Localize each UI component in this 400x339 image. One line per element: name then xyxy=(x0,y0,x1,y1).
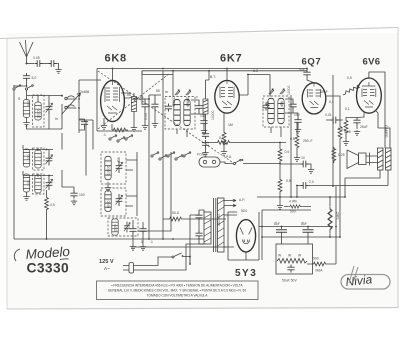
vertical right bus x333 xyxy=(332,75,334,186)
svg-text:50uF 50V: 50uF 50V xyxy=(282,279,297,283)
ground under C6 xyxy=(142,110,148,130)
svg-text:5Y3: 5Y3 xyxy=(235,268,257,279)
mains switch S3 xyxy=(172,253,190,264)
svg-text:10000: 10000 xyxy=(106,165,110,175)
coil L2 in box xyxy=(35,102,41,120)
speaker voice coil xyxy=(366,153,370,166)
svg-text:110.220: 110.220 xyxy=(217,214,221,226)
svg-text:0,1: 0,1 xyxy=(345,107,350,111)
coil L6 in box xyxy=(35,175,41,193)
svg-text:200: 200 xyxy=(27,154,31,160)
svg-text:2000: 2000 xyxy=(114,224,118,232)
svg-text:.1: .1 xyxy=(150,240,153,244)
svg-text:200: 200 xyxy=(27,180,31,186)
svg-text:A~: A~ xyxy=(104,266,110,271)
dashed box antenna coil unit xyxy=(33,95,45,127)
svg-text:1M: 1M xyxy=(228,123,233,127)
capacitor C2 xyxy=(49,60,57,67)
wire grid into 6V6 xyxy=(358,87,360,90)
svg-text:B.T.: B.T. xyxy=(210,75,216,79)
coil L8 in B2 xyxy=(105,191,111,212)
svg-text:456: 456 xyxy=(280,101,284,107)
svg-text:ln: ln xyxy=(55,117,58,121)
heater arrow 2 xyxy=(224,204,236,206)
ground under C10 xyxy=(130,234,136,250)
wire mid link xyxy=(23,133,62,176)
svg-text:0,25: 0,25 xyxy=(338,153,345,157)
ground under 6K8 left xyxy=(101,118,107,129)
ground under C19 xyxy=(354,130,360,135)
tuning gang arrow xyxy=(62,93,81,115)
junction dots bus xyxy=(46,238,164,240)
capacitor C3 antenna series xyxy=(23,63,36,81)
page bottom edge xyxy=(7,308,398,310)
resistor R11 plate load 6Q7 xyxy=(326,96,351,150)
svg-text:6V6: 6V6 xyxy=(363,57,381,68)
svg-text:0,5: 0,5 xyxy=(286,179,291,183)
capacitor C9 100 under T1 xyxy=(199,114,208,126)
wire grid feed 6K8 xyxy=(79,79,101,81)
svg-text:6K7: 6K7 xyxy=(220,53,242,65)
coil L1 antenna xyxy=(23,100,29,118)
wire gang to osc section xyxy=(79,120,93,176)
T1 secondary cap xyxy=(191,100,203,114)
filter capacitor C22 8uF xyxy=(274,222,287,244)
ground under C5 xyxy=(71,200,77,205)
T2 adjust arrow 1 xyxy=(269,89,274,94)
dashed box osc coil unit 1 xyxy=(33,148,45,170)
ground under L1 xyxy=(23,118,29,127)
value label cluster 5 xyxy=(117,96,284,244)
svg-text:50.: 50. xyxy=(140,95,145,99)
svg-text:456: 456 xyxy=(117,157,121,163)
trimmer CT4 in B1 xyxy=(116,161,123,173)
wire 6V6 plate to output transformer xyxy=(369,72,385,148)
ground under R6 xyxy=(221,147,227,155)
filter cap bus xyxy=(262,226,333,228)
trimmer CT6 in B3 xyxy=(124,222,130,233)
Modelo script xyxy=(14,244,71,262)
svg-text:456KC: 456KC xyxy=(172,96,176,107)
horizontal wire y197 xyxy=(257,196,345,198)
ground under R9 xyxy=(277,194,283,209)
FONO jack xyxy=(197,153,220,168)
band switch S1a xyxy=(13,85,27,90)
svg-text:C3330: C3330 xyxy=(27,261,70,276)
IF transformer T2 dashed box xyxy=(263,96,289,127)
svg-text:125 V: 125 V xyxy=(99,259,114,265)
brand logo stadium xyxy=(341,275,390,290)
capacitor C20 line filter upper xyxy=(195,210,204,221)
speaker cone xyxy=(347,150,366,169)
ground under C9 xyxy=(201,126,207,134)
mains plug xyxy=(123,263,134,274)
resistor R12 grid 6V6 0.5 xyxy=(343,76,359,95)
brand logo script xyxy=(345,266,373,289)
bottom ground bus xyxy=(14,238,197,240)
wire T2 bottom drops xyxy=(271,127,281,137)
wire phono line to volume xyxy=(243,163,280,165)
T2 adjust arrow 2 xyxy=(280,89,285,94)
svg-text:CAMPO: CAMPO xyxy=(384,125,388,138)
svg-text:.5uF: .5uF xyxy=(298,68,305,72)
svg-text:0,1: 0,1 xyxy=(219,136,224,140)
capacitor C15 10 xyxy=(280,156,311,168)
tube V1 internals xyxy=(105,81,120,113)
T2 primary coil xyxy=(268,98,274,123)
T1 primary coil xyxy=(174,99,180,125)
switch bank right of osc coils xyxy=(151,152,191,160)
capacitor C10 padder xyxy=(129,220,136,234)
ground B1 xyxy=(105,182,111,191)
vertical B+ wire x291 xyxy=(290,95,292,197)
wire transformer field return xyxy=(345,170,380,197)
capacitor C21 line filter lower xyxy=(195,221,202,239)
horizontal wire y237 xyxy=(262,236,340,238)
coil L5 oscillator xyxy=(23,174,29,192)
oscillator assembly outline xyxy=(137,152,171,231)
capacitor C5 100 xyxy=(62,170,85,199)
wire primary left down xyxy=(190,215,204,264)
svg-text:+: + xyxy=(302,221,304,225)
vertical feed IFT1 xyxy=(142,71,173,97)
svg-text:x: x xyxy=(196,95,198,99)
trimmer CT5 in B2 xyxy=(116,194,123,206)
svg-text:50: 50 xyxy=(156,89,160,93)
vertical wire x336 down xyxy=(335,186,337,264)
svg-text:6.3: 6.3 xyxy=(253,69,258,73)
right edge of converter box xyxy=(141,71,143,104)
resistor R4 50 xyxy=(163,211,226,221)
T1 secondary coil xyxy=(184,99,190,125)
dashed diagonal converter line A xyxy=(98,71,232,162)
tube V3 6Q7 envelope xyxy=(302,83,326,114)
wire osc top bus 2 xyxy=(23,176,53,179)
resistor R14 0.25 right xyxy=(332,147,345,163)
tube V4 internals xyxy=(362,82,376,107)
mains label 125V xyxy=(99,259,114,271)
resistor R8 volume upper 0.5 xyxy=(278,143,289,165)
svg-text:0,5: 0,5 xyxy=(285,150,290,154)
ground under C11 xyxy=(140,234,146,250)
wire secondary taps to 5Y3 xyxy=(224,215,246,260)
coil L3 oscillator xyxy=(23,149,29,167)
resistor R1 0.5 xyxy=(45,190,55,239)
tube V3 internals xyxy=(308,83,321,108)
tube V5 5Y3 envelope xyxy=(236,220,255,252)
capacitor C8 50uu at x142 xyxy=(0,0,1,1)
svg-text:6K8: 6K8 xyxy=(105,53,127,65)
wire right branch to coil L1 xyxy=(26,90,28,100)
capacitor C17 grid 6Q7 xyxy=(298,68,314,83)
left edge of converter box xyxy=(96,69,98,132)
tube V2 internals xyxy=(220,81,234,108)
coil L9 in B3 xyxy=(112,219,118,235)
capacitor C18 coupling to 6V6 xyxy=(325,113,343,123)
capacitor C12 under R5 xyxy=(202,114,209,139)
tuning gang section 1 xyxy=(65,96,77,100)
svg-text:4 Wh: 4 Wh xyxy=(289,200,297,204)
svg-text:5Z4: 5Z4 xyxy=(241,209,247,213)
trimmer CT3 xyxy=(46,178,53,190)
svg-text:0,5: 0,5 xyxy=(338,127,343,131)
svg-text:GENERAL 110 V. MEDICIONES CON: GENERAL 110 V. MEDICIONES CON VOL. MAX. … xyxy=(108,289,246,293)
power transformer primary winding xyxy=(204,212,211,244)
svg-text:6000: 6000 xyxy=(107,200,111,208)
wire speaker to transformer xyxy=(370,156,378,163)
capacitor C1 0.05 xyxy=(33,56,43,67)
svg-text:0,1: 0,1 xyxy=(329,100,334,104)
ground under C14 xyxy=(295,125,301,133)
wire antenna to C1 xyxy=(27,63,35,65)
dashed diagonal converter line B xyxy=(98,73,170,129)
wire 6K8 grid cap to bus xyxy=(112,69,114,81)
svg-text:50.U: 50.U xyxy=(172,211,180,215)
junction dots top bus xyxy=(112,68,308,76)
tube V1 6K8 envelope xyxy=(101,80,125,121)
wire 6K7 grid cap to bus xyxy=(226,69,228,81)
svg-text:0,5: 0,5 xyxy=(347,76,352,80)
svg-text:10000: 10000 xyxy=(287,85,291,95)
svg-text:.1: .1 xyxy=(140,240,143,244)
ground under C7 xyxy=(152,110,158,128)
tube V5 filaments xyxy=(240,228,252,244)
resistor R9 volume lower 0.5 xyxy=(278,164,291,195)
value label cluster 2 xyxy=(196,69,258,127)
wire under 6K8 box bottom xyxy=(97,130,142,132)
svg-text:10000: 10000 xyxy=(211,110,215,120)
svg-text:2x456: 2x456 xyxy=(80,90,89,94)
extra junction dots xyxy=(26,63,337,265)
junction dots mid xyxy=(26,85,346,257)
band switch S1b xyxy=(25,85,33,90)
vertical bus right of tuner xyxy=(78,80,80,133)
svg-text:A.P.: A.P. xyxy=(239,198,245,202)
ground under R2 xyxy=(131,112,137,132)
switch S2 phono xyxy=(220,159,243,165)
svg-text:456KC: 456KC xyxy=(186,96,190,107)
output transformer T3 secondary xyxy=(386,148,392,170)
svg-text:.05: .05 xyxy=(126,93,131,97)
capacitor C6 50uuF xyxy=(134,95,149,110)
svg-text:0.05: 0.05 xyxy=(33,56,40,60)
capacitor C4 tuner bottom xyxy=(79,119,88,130)
svg-text:P.U.: P.U. xyxy=(226,155,232,159)
wire transformer bottom bus link xyxy=(197,238,204,240)
svg-text:500: 500 xyxy=(27,100,31,106)
junction dots y197 xyxy=(279,185,334,198)
wire C1 to C2 xyxy=(43,63,50,65)
trimmer CT2 xyxy=(46,154,53,166)
tube V4 6V6 envelope xyxy=(357,78,382,113)
page left edge xyxy=(6,39,8,310)
T2 secondary coil xyxy=(278,98,284,123)
ground under osc coils xyxy=(23,192,29,200)
capacitor C14 under T2 xyxy=(293,113,302,125)
hum balance box xyxy=(276,244,313,274)
wire down to band switch xyxy=(26,81,28,86)
dashed box osc unit B2 xyxy=(101,188,126,216)
coil L7 in B1 xyxy=(105,156,111,179)
svg-text:100: 100 xyxy=(79,193,85,197)
heater arrow 1 xyxy=(224,199,236,201)
capacitor C7 xyxy=(149,95,161,110)
mains wires xyxy=(134,244,205,270)
vertical wire x149 xyxy=(148,95,150,239)
ground under C13 xyxy=(202,148,208,156)
svg-text:5,0: 5,0 xyxy=(32,76,37,80)
page sheet xyxy=(7,33,398,309)
svg-text:FONO: FONO xyxy=(197,153,207,157)
svg-text:2,0: 2,0 xyxy=(309,180,314,184)
capacitor C24 50uF xyxy=(282,265,297,283)
T2 primary cap xyxy=(262,103,269,111)
vertical wire x340 xyxy=(339,150,341,237)
wire B+ from rectifier xyxy=(259,210,262,260)
hum resistor taps labels xyxy=(278,254,302,258)
resistor R10 grid leak 6Q7 xyxy=(290,122,299,156)
svg-text:• FRECUENCIA INTERMEDIA 456 Kc: • FRECUENCIA INTERMEDIA 456 Kc/s • PO 40… xyxy=(111,284,243,288)
svg-text:+: + xyxy=(275,221,277,225)
horizontal wire y210 xyxy=(262,209,311,211)
output transformer T3 primary xyxy=(378,148,384,170)
resistor R2 screen hatched xyxy=(124,93,136,112)
svg-text:500.: 500. xyxy=(290,210,297,214)
capacitor C13 under R5 xyxy=(202,140,209,148)
antenna xyxy=(20,40,34,64)
capacitor C16 2.0 coupling xyxy=(297,180,388,197)
wire 6K7 plate to T2 xyxy=(239,75,270,97)
ground under C15 xyxy=(308,168,314,173)
svg-text:m: m xyxy=(165,90,168,94)
svg-text:0,5: 0,5 xyxy=(50,203,55,207)
ground bus second line xyxy=(131,246,226,248)
ground under R13 xyxy=(343,140,349,145)
notes box xyxy=(97,281,259,300)
wire osc top bus 1 xyxy=(23,150,53,154)
wire trimmer bottoms xyxy=(27,104,63,129)
capacitor C11 padder xyxy=(139,222,146,234)
wire top bus left tuner xyxy=(27,96,63,103)
wire 6V6 screen xyxy=(375,110,390,148)
svg-text:TOMADO CON VOLTIMETRO A VALVUL: TOMADO CON VOLTIMETRO A VALVULA xyxy=(147,294,209,298)
svg-text:Nivia: Nivia xyxy=(345,272,373,289)
svg-text:20000: 20000 xyxy=(36,108,40,118)
power transformer core xyxy=(214,198,216,252)
svg-text:MdA: MdA xyxy=(316,269,324,273)
hum wirewound resistor xyxy=(277,259,307,264)
svg-text:50..F: 50..F xyxy=(320,90,328,94)
switch bank under 6K8 xyxy=(109,135,133,142)
coil L4 in box xyxy=(35,150,41,168)
page top edge xyxy=(0,28,398,39)
dashed box osc unit B3 xyxy=(108,218,138,236)
resistor R16 500 xyxy=(307,257,336,273)
T1 adjust arrow 2 xyxy=(186,90,191,95)
power transformer secondary winding xyxy=(218,198,225,252)
T1 adjust arrow 1 xyxy=(175,90,180,95)
filter capacitor C23 8uF xyxy=(301,222,314,244)
osc coil inner labels xyxy=(107,200,118,232)
svg-text:10: 10 xyxy=(301,156,305,160)
vertical wire x163 xyxy=(162,71,164,239)
svg-text:100: 100 xyxy=(200,114,206,118)
svg-text:.1: .1 xyxy=(103,133,106,137)
resistor R6 cathode 6K7 xyxy=(222,113,226,147)
resistor R3 under tube xyxy=(112,124,128,132)
dashed box osc coil unit 2 xyxy=(33,174,45,194)
resistor R5 hatched left of 6K7 xyxy=(203,71,209,114)
resistor R15 field 2470 xyxy=(328,197,339,237)
svg-text:0.05: 0.05 xyxy=(144,113,148,120)
svg-text:25uF: 25uF xyxy=(360,125,368,129)
value label cluster 3 xyxy=(287,85,388,137)
svg-text:250..F: 250..F xyxy=(303,139,313,143)
rectifier loop left xyxy=(228,212,259,260)
IF transformer T1 dashed box xyxy=(165,97,195,130)
tube V2 6K7 envelope xyxy=(215,80,239,113)
resistor R7 0.1 xyxy=(206,136,287,144)
wire bus drop x142 xyxy=(141,71,143,74)
resistor R17 BT xyxy=(284,200,311,214)
second top bus xyxy=(142,70,307,72)
resistor R13 cathode 6V6 xyxy=(338,118,357,141)
ground under R10 xyxy=(294,156,300,161)
svg-text:500.: 500. xyxy=(313,257,320,261)
T2 secondary cap xyxy=(285,99,297,113)
svg-text:6Q7: 6Q7 xyxy=(302,57,322,68)
trimmer CT1 xyxy=(46,102,53,114)
top AVC bus xyxy=(97,68,307,70)
svg-text:100: 100 xyxy=(294,113,300,117)
wire T1 bottom to ground bus xyxy=(177,129,187,137)
value label cluster 1 xyxy=(103,89,168,137)
value label cluster 6 xyxy=(217,155,304,226)
svg-text:456: 456 xyxy=(266,101,270,107)
value label cluster 4 xyxy=(18,90,89,186)
ground antenna input xyxy=(55,64,61,74)
T1 primary cap xyxy=(165,104,172,112)
wire transformer bottom to bus xyxy=(387,170,389,186)
wire plate to IFT1 xyxy=(121,93,149,99)
dashed box osc unit B1 xyxy=(101,152,126,184)
svg-text:0,01: 0,01 xyxy=(325,113,332,117)
tuning gang section 2 xyxy=(65,105,77,109)
wire osc section links xyxy=(126,160,137,206)
page right edge xyxy=(397,28,399,309)
wire left branch down xyxy=(13,90,15,239)
capacitor C19 cathode 25uF xyxy=(353,113,367,130)
